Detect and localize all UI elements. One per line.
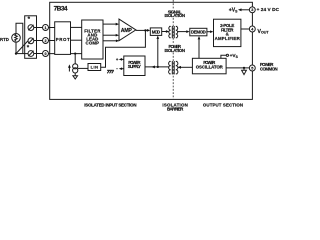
- wire current source to LIN: [78, 67, 88, 69]
- node +VS: [226, 54, 228, 56]
- protection block PROT: [55, 22, 71, 55]
- modulator block MOD: [150, 28, 161, 36]
- wire terminal 2 to PROT: [48, 40, 54, 42]
- svg-text:AMPLIFIER: AMPLIFIER: [215, 36, 241, 41]
- wire current source to common: [74, 73, 76, 76]
- svg-text:LIN: LIN: [91, 65, 99, 70]
- svg-text:*: *: [27, 44, 30, 51]
- wire power riser to MOD: [157, 38, 159, 67]
- resistor RTD sensor: [12, 34, 21, 43]
- power supply block: [124, 56, 145, 76]
- wire diagonal to pot P2 row: [16, 41, 28, 54]
- svg-text:7B34: 7B34: [54, 6, 68, 13]
- svg-text:OUTPUT SECTION: OUTPUT SECTION: [203, 103, 243, 108]
- node output common junction: [243, 67, 245, 69]
- wire oscillator to transformer T2: [179, 66, 193, 68]
- node power supply feed: [157, 66, 159, 68]
- terminal 0: [43, 51, 49, 57]
- wire RTD top lead up: [16, 23, 23, 53]
- terminal 1: [43, 25, 49, 31]
- terminal 5: [249, 65, 255, 71]
- node RTD bottom junction: [15, 52, 17, 54]
- svg-text:OSCILLATOR: OSCILLATOR: [196, 64, 224, 69]
- op-amp AMP: [119, 19, 136, 41]
- wire LIN feedback loop to amp output node: [101, 30, 146, 67]
- svg-text:0: 0: [44, 52, 46, 56]
- wire output filter to terminal 4: [241, 28, 250, 30]
- pot P3: [28, 50, 34, 56]
- wire filter to amp vertex: [103, 40, 117, 42]
- svg-text:+VS: +VS: [229, 8, 238, 14]
- wire filter to amp input 2: [103, 34, 117, 36]
- output filter block 2-POLE FILTER & AMPLIFIER: [214, 19, 241, 46]
- node amp output: [144, 29, 146, 31]
- svg-text:COMMON: COMMON: [260, 66, 278, 71]
- svg-text:AMP: AMP: [121, 28, 133, 34]
- svg-text:SUPPLY: SUPPLY: [128, 64, 141, 69]
- wire +supply stub: [121, 58, 124, 60]
- power oscillator block: [192, 58, 226, 74]
- svg-text:2: 2: [44, 39, 46, 43]
- wire bottom row to pot P3: [16, 53, 28, 55]
- wire MOD to transformer T1: [162, 31, 167, 33]
- pot P2: [28, 38, 34, 44]
- node excitation junction: [74, 52, 76, 54]
- pot P1: [28, 25, 34, 31]
- adjustment pots box: [25, 16, 37, 59]
- demodulator block DEMOD: [190, 28, 207, 36]
- wire -supply stub: [121, 68, 124, 70]
- module outer box 7B34: [50, 2, 253, 99]
- svg-text:+ 24 V DC: + 24 V DC: [257, 7, 280, 12]
- wire pot P2 to terminal 2: [34, 40, 43, 42]
- isolation barrier dashed line: [172, 0, 174, 99]
- svg-text:*: *: [28, 16, 31, 23]
- svg-text:BARRIER: BARRIER: [167, 107, 184, 112]
- terminal 4: [249, 26, 255, 32]
- wire terminal 0 row to junction: [48, 53, 81, 55]
- wire RTD bottom lead: [15, 42, 17, 54]
- wire DEMOD to output filter: [207, 31, 211, 33]
- linearization block LIN: [88, 64, 101, 71]
- wire terminal 1 to PROT: [48, 27, 54, 29]
- wire PROT to filter row1: [71, 26, 82, 28]
- svg-text:VOUT: VOUT: [257, 29, 269, 35]
- svg-text:RTD: RTD: [0, 37, 9, 42]
- terminal 2: [43, 38, 49, 44]
- wire filter to amp input 1: [103, 23, 117, 25]
- wire oscillator to +VS node: [221, 55, 226, 58]
- svg-text:COMP: COMP: [86, 41, 100, 46]
- filter block FILTER AND LEAD COMP: [82, 20, 103, 59]
- input common triangle: [73, 76, 78, 79]
- wire transformer T1 to DEMOD: [178, 31, 188, 33]
- transformer T2 power: [169, 61, 178, 74]
- output common triangle: [242, 70, 247, 74]
- wire oscillator to terminal 5: [226, 67, 249, 69]
- svg-text:5: 5: [251, 66, 253, 70]
- svg-text:ISOLATION: ISOLATION: [165, 48, 186, 53]
- svg-text:1: 1: [44, 26, 46, 30]
- wire PROT to filter row2: [71, 39, 82, 41]
- wire oscillator riser to DEMOD: [198, 38, 200, 58]
- current source I1: [68, 64, 78, 73]
- svg-text:ISOLATION: ISOLATION: [165, 13, 186, 18]
- wire pot P1 to terminal 1: [34, 27, 43, 29]
- svg-text:PROT: PROT: [56, 37, 70, 42]
- svg-text:3: 3: [251, 8, 253, 12]
- input section ground: [107, 70, 114, 73]
- wire common stub: [243, 68, 245, 70]
- wire terminal 3 to +VS arrow: [241, 9, 250, 11]
- terminal 3: [249, 7, 255, 13]
- svg-text:+: +: [116, 57, 119, 62]
- svg-text:-: -: [116, 66, 118, 71]
- svg-text:DEMOD: DEMOD: [191, 30, 206, 35]
- wire junction down to current source: [74, 54, 76, 65]
- svg-text:ISOLATED INPUT SECTION: ISOLATED INPUT SECTION: [84, 103, 136, 108]
- wire amp output to MOD: [136, 29, 148, 31]
- wire power supply to transformer T2: [145, 66, 169, 68]
- wire pot P3 to terminal 0: [34, 53, 43, 55]
- svg-text:MOD: MOD: [152, 29, 161, 34]
- svg-text:+VS: +VS: [230, 53, 239, 59]
- transformer T1 signal: [169, 26, 178, 38]
